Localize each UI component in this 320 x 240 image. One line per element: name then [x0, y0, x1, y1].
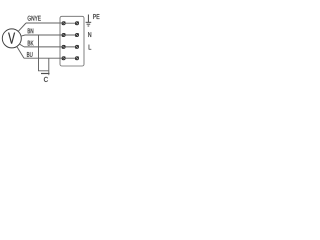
terminal 3 right — [75, 45, 78, 48]
wire diagonal to GNYE — [18, 23, 26, 31]
voltmeter V1 letter — [8, 33, 15, 44]
terminal row 4 link — [62, 57, 79, 59]
terminal 4 right — [75, 57, 78, 60]
terminal row 1 link — [62, 22, 79, 24]
wire BU horizontal — [24, 57, 62, 59]
terminal 2 right — [75, 33, 78, 36]
terminal 1 left — [62, 22, 65, 25]
wire capacitor lead from BN — [39, 35, 49, 71]
label PE — [93, 14, 96, 19]
label BU — [27, 52, 29, 57]
terminal row 2 link — [62, 34, 79, 36]
label GNYE — [28, 16, 31, 21]
label BK — [28, 41, 30, 46]
wire BN horizontal — [25, 34, 62, 36]
wire diagonal to BU — [17, 47, 24, 59]
label L — [89, 45, 92, 50]
label C — [44, 77, 48, 82]
wire diagonal to BK — [20, 44, 24, 47]
wire diagonal to BN — [21, 35, 25, 36]
terminal row 3 link — [62, 46, 79, 48]
label N — [88, 32, 91, 37]
wire capacitor lead from BU — [48, 58, 50, 73]
ground symbol (PE earth) — [86, 15, 92, 27]
terminal 2 left — [62, 33, 65, 36]
wire BK horizontal — [24, 46, 62, 48]
terminal block X1 — [60, 16, 84, 66]
voltmeter V1 circle — [2, 29, 21, 48]
terminal 4 left — [62, 57, 65, 60]
capacitor C lead stub — [48, 74, 50, 76]
label BN — [28, 28, 30, 33]
background — [0, 0, 100, 100]
terminal 3 left — [62, 45, 65, 48]
terminal 1 right — [75, 22, 78, 25]
capacitor C plate — [41, 73, 50, 75]
wire GNYE horizontal — [26, 22, 62, 24]
